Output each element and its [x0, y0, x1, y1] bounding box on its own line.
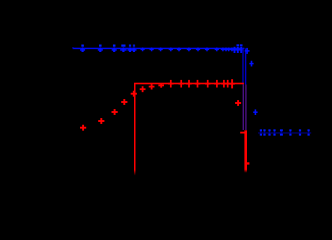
blue data point x=82.6 top error cap [81, 45, 84, 47]
blue data point x=134.0 error bar stem [133, 46, 134, 48]
blue fit line (upper plateau) [73, 48, 245, 49]
blue data point x=114.2 error bar stem [114, 46, 115, 48]
red data point (101.3,121.0) plus marker [98, 120, 104, 122]
blue data point x=100.3 error bar stem [100, 46, 101, 48]
blue data point x=82.6 error bar stem [82, 46, 83, 48]
blue lower data point x=260.9 error bar with caps [260, 130, 261, 136]
blue fit line vertical drop (left) upper segment [242, 48, 243, 84]
red data point x=189.0 plus marker on line [186, 83, 191, 85]
red fit line horizontal plateau [134, 83, 244, 85]
blue data point x=216.8 plus marker [215, 49, 219, 50]
red data point x=207.7 plus marker on line [205, 83, 210, 85]
blue data point x=237.8 top error cap [237, 44, 240, 46]
blue fit line vertical drop (right) upper segment [245, 48, 246, 84]
red data point x=216.9 plus marker on line [214, 83, 219, 85]
blue data point x=134.0 plus marker [132, 49, 137, 51]
blue data point x=241.2 plus marker with tall error bar [239, 49, 243, 51]
red marker left arm at top of thick bar [240, 132, 244, 134]
blue data point x=82.6 plus marker [80, 49, 85, 51]
blue data point x=130.0 top error cap [129, 45, 131, 47]
blue data point x=170.8 plus marker [169, 49, 173, 50]
red data point (133.8,93.7) plus marker [131, 93, 137, 95]
red data point x=197.5 plus marker on line [195, 83, 200, 85]
red data point x=232.1 plus marker tall [229, 83, 234, 85]
blue lower data point x=308.6 error bar with caps [308, 130, 309, 136]
blue data point x=130.0 error bar stem [129, 46, 130, 48]
blue data point x=123.4 error bar stem [123, 46, 124, 48]
vertical drop (left) lower purple segment (blue+red overlap) [243, 85, 244, 131]
blue lower data point x=281.4 error bar with caps [281, 130, 282, 136]
blue data point x=100.3 plus marker [98, 49, 103, 51]
blue data point x=231.9 plus marker [230, 49, 234, 50]
blue data point x=234.5 plus marker with tall error bar [232, 49, 236, 51]
blue data point x=130.0 plus marker [128, 49, 133, 51]
blue data point x=134.0 top error cap [133, 45, 135, 47]
red data point (124.3,102.0) plus marker [121, 101, 127, 103]
blue data point x=226.0 plus marker [224, 49, 228, 50]
blue data point x=114.2 plus marker [112, 49, 117, 51]
blue lower data point x=290.4 error bar with caps [290, 130, 291, 136]
blue data point x=241.2 top error cap [240, 44, 243, 46]
vertical drop (right) lower purple segment (blue+red overlap) [245, 85, 246, 131]
blue data point x=123.4 plus marker [120, 49, 126, 51]
red bar right cap bump [247, 162, 249, 164]
blue data point x=151.6 plus marker [150, 49, 154, 50]
isolated blue plus marker (247.1,50.9) [245, 50, 250, 52]
blue data point x=123.4 top error cap [121, 45, 125, 47]
blue fit line lead-in tail [72, 47, 74, 48]
red fit line vertical fade tail [134, 170, 136, 176]
red data point (114.6,112.0) plus marker [112, 111, 118, 113]
blue data point x=160.6 plus marker [159, 49, 163, 50]
blue lower plateau line [258, 132, 311, 135]
red data point (161.2,85.4) plus marker [158, 85, 164, 87]
blue data point x=114.2 top error cap [113, 45, 116, 47]
red data point x=181.2 plus marker on line [179, 83, 184, 85]
blue data point x=222.9 plus marker [221, 49, 225, 50]
blue data point x=100.3 top error cap [99, 45, 102, 47]
red data point x=223.9 plus marker on line [221, 83, 226, 85]
red data point (83.1,127.7) plus marker [80, 127, 86, 129]
blue data point x=188.9 plus marker [187, 49, 191, 50]
red outlier plus marker (238.1,103.0) [235, 102, 241, 104]
red data point (151.6,86.6) plus marker [149, 86, 155, 88]
blue data point x=228.7 plus marker [227, 49, 231, 50]
blue data point x=237.8 plus marker with tall error bar [236, 49, 240, 51]
red bar bottom fade tip [244, 170, 247, 173]
blue lower data point x=300.0 error bar with caps [299, 130, 300, 136]
blue lower data point x=269.5 error bar with caps [269, 130, 270, 136]
blue data point x=207.0 plus marker [205, 49, 209, 50]
red data point (142.6,89.2) plus marker [140, 88, 146, 90]
red data point x=227.7 plus marker on line [225, 83, 230, 85]
isolated blue plus marker (251.5,63.6) [249, 63, 253, 65]
blue data point x=142.6 plus marker [141, 49, 145, 50]
red data point x=170.8 plus marker on line [168, 83, 173, 85]
blue data point x=198.0 plus marker [196, 49, 200, 50]
blue lower data point x=264.5 error bar with caps [264, 130, 265, 136]
red fit line vertical rise at x=134.7 [134, 83, 136, 170]
blue lower data point x=274.5 error bar with caps [274, 130, 275, 136]
blue data point x=179.0 plus marker [177, 49, 181, 50]
isolated blue plus marker (255.4,112.2) [253, 111, 257, 113]
red thick vertical bar (limit arrow shaft) [244, 130, 247, 169]
